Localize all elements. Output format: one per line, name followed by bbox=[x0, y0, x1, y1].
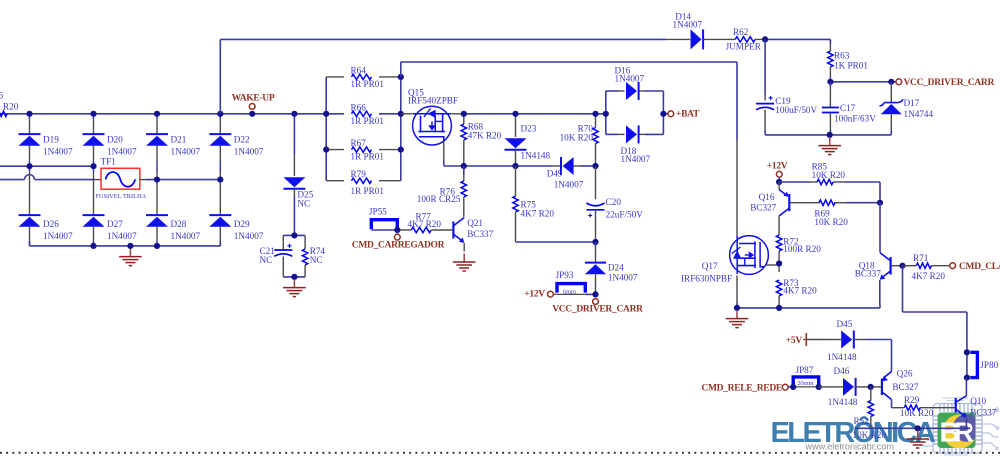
svg-text:BC337: BC337 bbox=[467, 229, 493, 239]
wire top bus bbox=[0, 113, 326, 115]
svg-text:R79: R79 bbox=[351, 169, 367, 179]
svg-text:CMD_CARREGADOR: CMD_CARREGADOR bbox=[352, 241, 445, 251]
svg-text:R66: R66 bbox=[351, 102, 367, 112]
svg-text:JP55: JP55 bbox=[369, 206, 387, 216]
svg-text:C17: C17 bbox=[840, 103, 856, 113]
wire VCC row bbox=[830, 81, 891, 83]
transistor Q10 bbox=[955, 398, 957, 413]
resistor R66 bbox=[352, 111, 372, 116]
diode D28 bbox=[156, 166, 158, 172]
svg-text:Q10: Q10 bbox=[970, 396, 986, 406]
resistor R72 bbox=[778, 216, 780, 227]
capacitor C17 bbox=[829, 82, 831, 87]
wire D45 to Q26 emitter bbox=[891, 340, 893, 372]
svg-text:1N4148: 1N4148 bbox=[827, 352, 857, 362]
wire Q17 drain pin bbox=[766, 264, 780, 266]
resistor R70 bbox=[595, 114, 597, 128]
svg-text:NC: NC bbox=[260, 255, 273, 265]
svg-text:1N4007: 1N4007 bbox=[621, 154, 651, 164]
transistor Q26 bbox=[881, 379, 883, 396]
svg-text:10K R20: 10K R20 bbox=[814, 217, 848, 227]
svg-text:R63: R63 bbox=[834, 51, 850, 61]
svg-text:1N4007: 1N4007 bbox=[107, 146, 137, 156]
svg-text:NC: NC bbox=[297, 199, 310, 209]
svg-text:D49: D49 bbox=[547, 169, 563, 179]
diode D14 bbox=[702, 29, 704, 49]
svg-text:Q17: Q17 bbox=[702, 261, 718, 271]
svg-text:10K R20: 10K R20 bbox=[560, 132, 594, 142]
diode D26 bbox=[29, 166, 31, 172]
svg-text:VCC_DRIVER_CARR: VCC_DRIVER_CARR bbox=[552, 305, 643, 315]
wire to R63 bbox=[765, 38, 830, 40]
svg-text:D27: D27 bbox=[107, 219, 123, 229]
svg-text:D19: D19 bbox=[43, 134, 59, 144]
svg-text:CMD_CLAM: CMD_CLAM bbox=[959, 262, 1000, 272]
svg-text:R67: R67 bbox=[351, 138, 367, 148]
diode D23 bbox=[515, 114, 517, 137]
svg-text:1R PR01: 1R PR01 bbox=[351, 116, 385, 126]
diode D21 bbox=[156, 114, 158, 119]
svg-text:IRF630NPBF: IRF630NPBF bbox=[681, 273, 732, 283]
resistor R62 bbox=[735, 37, 755, 42]
svg-text:R64: R64 bbox=[351, 65, 367, 75]
resistor R63 bbox=[828, 51, 833, 67]
svg-text:+5V: +5V bbox=[786, 336, 803, 346]
jumper JP80 bbox=[970, 352, 977, 377]
capacitor C20 bbox=[595, 166, 597, 199]
svg-text:D23: D23 bbox=[521, 123, 537, 133]
wire bottom rail left bbox=[29, 241, 31, 246]
net terminal +12V left bbox=[548, 291, 554, 297]
resistor R76 bbox=[463, 166, 465, 175]
junction dots diode matrix bbox=[26, 111, 32, 117]
svg-text:1N4007: 1N4007 bbox=[107, 231, 137, 241]
svg-text:D22: D22 bbox=[234, 134, 250, 144]
svg-text:100R CR25: 100R CR25 bbox=[417, 194, 461, 204]
resistor R74 bbox=[302, 249, 307, 265]
svg-text:1N4007: 1N4007 bbox=[673, 19, 703, 29]
svg-text:20mm: 20mm bbox=[797, 380, 813, 387]
svg-text:1N4007: 1N4007 bbox=[171, 146, 201, 156]
ladder junction dots bbox=[323, 111, 329, 117]
jumper JP55 bbox=[371, 220, 397, 230]
svg-text:BC337: BC337 bbox=[855, 269, 881, 279]
dotted bottom border bbox=[0, 452, 1000, 454]
diode bridge D16 D18 box bbox=[605, 91, 607, 134]
jumper JP87 bbox=[788, 386, 793, 388]
svg-text:NC: NC bbox=[310, 255, 323, 265]
fuse TF1 bbox=[101, 168, 140, 189]
resistor R67 bbox=[326, 149, 344, 151]
svg-text:1N4007: 1N4007 bbox=[43, 231, 73, 241]
wire R69 row bbox=[790, 202, 820, 204]
resistor R75 bbox=[515, 166, 517, 196]
svg-text:1R PR01: 1R PR01 bbox=[351, 186, 385, 196]
wire upper loop bbox=[400, 62, 402, 77]
diode D22 bbox=[219, 114, 221, 119]
svg-text:1R PR01: 1R PR01 bbox=[351, 79, 385, 89]
svg-text:D29: D29 bbox=[234, 219, 250, 229]
svg-text:1N4007: 1N4007 bbox=[171, 231, 201, 241]
svg-text:D28: D28 bbox=[171, 219, 187, 229]
diode D27 bbox=[93, 166, 95, 172]
diode D16 bbox=[638, 82, 640, 100]
svg-text:D20: D20 bbox=[107, 134, 123, 144]
svg-text:+12V: +12V bbox=[767, 162, 788, 172]
svg-text:D21: D21 bbox=[171, 134, 187, 144]
svg-text:R20: R20 bbox=[3, 102, 19, 112]
resistor R69 bbox=[819, 200, 835, 205]
svg-text:1N4007: 1N4007 bbox=[608, 272, 638, 282]
svg-text:VCC_DRIVER_CARR: VCC_DRIVER_CARR bbox=[904, 78, 995, 88]
diode D18 bbox=[638, 125, 640, 143]
wire JP87 to D46 bbox=[790, 384, 796, 390]
junction dots row1-row2 bbox=[461, 111, 467, 117]
wire Q10 emitter and bottom rail bbox=[965, 418, 967, 429]
svg-text:1N4007: 1N4007 bbox=[234, 146, 264, 156]
resistor R79 bbox=[326, 180, 344, 182]
wire JP93 to D24 bbox=[585, 293, 595, 295]
net terminal CMD_CLA bbox=[950, 263, 956, 269]
svg-text:4K7 R20: 4K7 R20 bbox=[783, 285, 817, 295]
svg-text:1N4744: 1N4744 bbox=[904, 109, 934, 119]
net terminal CMD_RELE_REDE bbox=[782, 384, 788, 390]
wire rail under R75 C20 bbox=[516, 241, 596, 243]
resistor R29 bbox=[904, 405, 920, 410]
ground G4 bbox=[829, 137, 831, 145]
svg-text:BR: BR bbox=[940, 417, 975, 448]
svg-text:www.eletronicabr.com: www.eletronicabr.com bbox=[805, 441, 894, 451]
svg-text:C20: C20 bbox=[606, 197, 622, 207]
svg-text:R52: R52 bbox=[854, 416, 870, 426]
resistor ladder rails bbox=[325, 77, 327, 181]
svg-text:100R R20: 100R R20 bbox=[783, 244, 821, 254]
svg-text:D45: D45 bbox=[837, 319, 853, 329]
svg-text:1N4007: 1N4007 bbox=[615, 74, 645, 84]
wire Q18 collector column bbox=[879, 203, 881, 253]
zener diode D17 bbox=[890, 82, 892, 85]
svg-text:1N4007: 1N4007 bbox=[43, 146, 73, 156]
svg-text:4K7 R20: 4K7 R20 bbox=[912, 271, 946, 281]
svg-text:BC337: BC337 bbox=[970, 408, 996, 418]
svg-text:+BAT: +BAT bbox=[676, 110, 700, 120]
resistor R68 bbox=[463, 114, 465, 124]
svg-text:10K R20: 10K R20 bbox=[812, 170, 846, 180]
resistor R73 bbox=[776, 280, 781, 296]
net terminal VCC_DRIVER_CARR bottom bbox=[593, 299, 599, 305]
ground G6 bbox=[917, 431, 919, 439]
svg-text:4K7 R20: 4K7 R20 bbox=[408, 219, 442, 229]
ground G3 under Q21 bbox=[463, 243, 465, 251]
svg-text:Q16: Q16 bbox=[759, 192, 775, 202]
svg-text:Q26: Q26 bbox=[897, 369, 913, 379]
svg-text:1R PR01: 1R PR01 bbox=[351, 152, 385, 162]
svg-text:4K7 R20: 4K7 R20 bbox=[521, 208, 555, 218]
wire Q21 base row bbox=[371, 229, 397, 231]
diode D25 bbox=[293, 114, 295, 155]
svg-text:D46: D46 bbox=[834, 366, 850, 376]
wire bus right section bbox=[464, 113, 516, 115]
diode D20 bbox=[93, 114, 95, 119]
svg-text:1N4148: 1N4148 bbox=[521, 150, 551, 160]
wire B with hop bbox=[0, 179, 25, 181]
resistor R52 bbox=[870, 387, 872, 401]
wire top long bbox=[219, 39, 221, 113]
resistor fragment R20 at left edge bbox=[0, 111, 7, 116]
mosfet Q17 bbox=[730, 236, 769, 275]
wire A left mid bbox=[0, 165, 94, 167]
diode D19 bbox=[29, 114, 31, 119]
diode D29 bbox=[219, 166, 221, 172]
svg-text:100nF/63V: 100nF/63V bbox=[834, 114, 876, 124]
svg-text:1N4007: 1N4007 bbox=[234, 231, 264, 241]
svg-text:TF1: TF1 bbox=[101, 157, 117, 167]
ground G5 bbox=[736, 310, 738, 318]
diode D49 bbox=[552, 165, 562, 167]
net terminal CMD_CARREGADOR bbox=[396, 231, 398, 234]
svg-text:10K R20: 10K R20 bbox=[900, 408, 934, 418]
resistor R71 bbox=[899, 263, 905, 269]
transistor Q18 bbox=[889, 257, 891, 275]
capacitor C19 bbox=[756, 103, 774, 105]
resistor R77 bbox=[411, 227, 431, 232]
net terminal +BAT bbox=[663, 113, 668, 115]
wire C19 column bbox=[764, 39, 766, 95]
ground G2 bbox=[293, 279, 295, 287]
watermark chip graphic bbox=[922, 398, 999, 455]
svg-text:10K R20: 10K R20 bbox=[853, 430, 887, 440]
capacitor C21 and resistor R74 block bbox=[283, 234, 305, 236]
wire Q18 emitter bbox=[879, 280, 881, 303]
svg-text:6: 6 bbox=[0, 91, 4, 101]
wire JP80 feed bbox=[902, 266, 904, 312]
svg-text:1N4007: 1N4007 bbox=[554, 180, 584, 190]
svg-text:D26: D26 bbox=[43, 219, 59, 229]
svg-text:22uF/50V: 22uF/50V bbox=[606, 210, 644, 220]
svg-text:Q21: Q21 bbox=[467, 218, 483, 228]
svg-text:CMD_RELE_REDE: CMD_RELE_REDE bbox=[701, 383, 782, 393]
ground G1 bbox=[129, 248, 131, 256]
diode D45 bbox=[806, 339, 831, 341]
svg-text:1N4148: 1N4148 bbox=[828, 397, 858, 407]
svg-text:R29: R29 bbox=[904, 395, 920, 405]
svg-text:1K PR01: 1K PR01 bbox=[834, 61, 868, 71]
mosfet Q15 bbox=[413, 106, 452, 145]
svg-text:JUMPER: JUMPER bbox=[726, 42, 762, 52]
wire Q15 connections bbox=[401, 113, 413, 115]
wire row2 bbox=[464, 165, 516, 167]
net terminal +12V bbox=[776, 171, 782, 177]
resistor R64 bbox=[326, 76, 344, 78]
capacitor C21 bbox=[274, 249, 292, 251]
diode D24 bbox=[595, 242, 597, 247]
svg-text:BC327: BC327 bbox=[892, 382, 918, 392]
svg-text:JP93: JP93 bbox=[556, 270, 574, 280]
svg-text:100uF/50V: 100uF/50V bbox=[775, 105, 817, 115]
svg-text:R62: R62 bbox=[733, 27, 749, 37]
transistor Q21 bbox=[452, 222, 454, 239]
svg-text:D17: D17 bbox=[904, 98, 920, 108]
svg-text:47K R20: 47K R20 bbox=[468, 131, 502, 141]
svg-text:R71: R71 bbox=[913, 253, 929, 263]
transistor Q16 bbox=[778, 182, 780, 190]
svg-text:FUSIVEL TRILHA: FUSIVEL TRILHA bbox=[95, 193, 146, 200]
svg-text:+12V: +12V bbox=[524, 290, 545, 300]
svg-text:IRF540ZPBF: IRF540ZPBF bbox=[408, 95, 458, 105]
jumper JP93 bbox=[557, 284, 585, 293]
net terminal WAKE-UP bbox=[249, 104, 255, 110]
svg-text:WAKE-UP: WAKE-UP bbox=[232, 93, 275, 103]
wire Q17 source and rail bbox=[736, 276, 738, 304]
svg-text:BC327: BC327 bbox=[750, 202, 776, 212]
net terminal VCC_DRIVER_CARR top bbox=[896, 79, 902, 85]
svg-text:JP80: JP80 bbox=[980, 360, 998, 370]
diode D46 bbox=[855, 378, 857, 396]
svg-text:JP87: JP87 bbox=[796, 365, 814, 375]
wire Q26 collector to R29 bbox=[891, 400, 893, 408]
resistor R85 bbox=[817, 179, 833, 184]
wire VCC bottom rail bbox=[765, 134, 891, 136]
wire Q10 collector bbox=[965, 378, 967, 396]
wire R85 row bbox=[778, 177, 780, 182]
svg-text:D24: D24 bbox=[608, 262, 624, 272]
